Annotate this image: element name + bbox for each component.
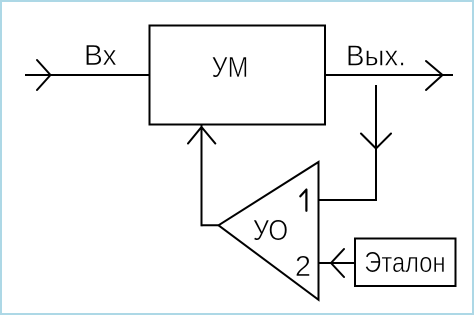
arrowhead (down) on feedback wire [361, 134, 391, 149]
svg-text:Эталон: Эталон [364, 247, 445, 279]
block УМ (power amplifier) [150, 26, 326, 125]
wire: output signal line (Вых) [325, 74, 453, 76]
pin label 2 [295, 251, 311, 283]
wire: УО output, horizontal from apex [202, 224, 219, 226]
arrowhead into pin 2 [331, 249, 344, 277]
svg-text:Вх: Вх [84, 40, 117, 72]
arrowhead on output wire [426, 61, 443, 90]
svg-text:2: 2 [295, 251, 311, 283]
wire: comparator pin 1 input [319, 199, 378, 201]
wire: input signal line (Вх) [25, 74, 150, 76]
block Эталон (reference source) [355, 239, 456, 287]
label Вх [84, 40, 117, 72]
label Эталон [364, 247, 445, 279]
wire: УО output, vertical up into УМ [201, 125, 203, 226]
arrowhead (up) into УМ bottom [188, 127, 215, 144]
arrowhead on input wire [37, 60, 51, 90]
label Вых. [346, 40, 406, 72]
wire: feedback tap, vertical from output down to node [375, 85, 377, 201]
svg-text:Вых.: Вых. [346, 40, 406, 72]
svg-text:УМ: УМ [212, 52, 249, 84]
comparator УО (triangle) [219, 162, 319, 300]
svg-text:УО: УО [253, 215, 288, 247]
label УМ [212, 52, 249, 84]
pin label 1 [300, 190, 306, 211]
label УО [253, 215, 288, 247]
wire: pin 2 input from Эталон [319, 262, 357, 264]
